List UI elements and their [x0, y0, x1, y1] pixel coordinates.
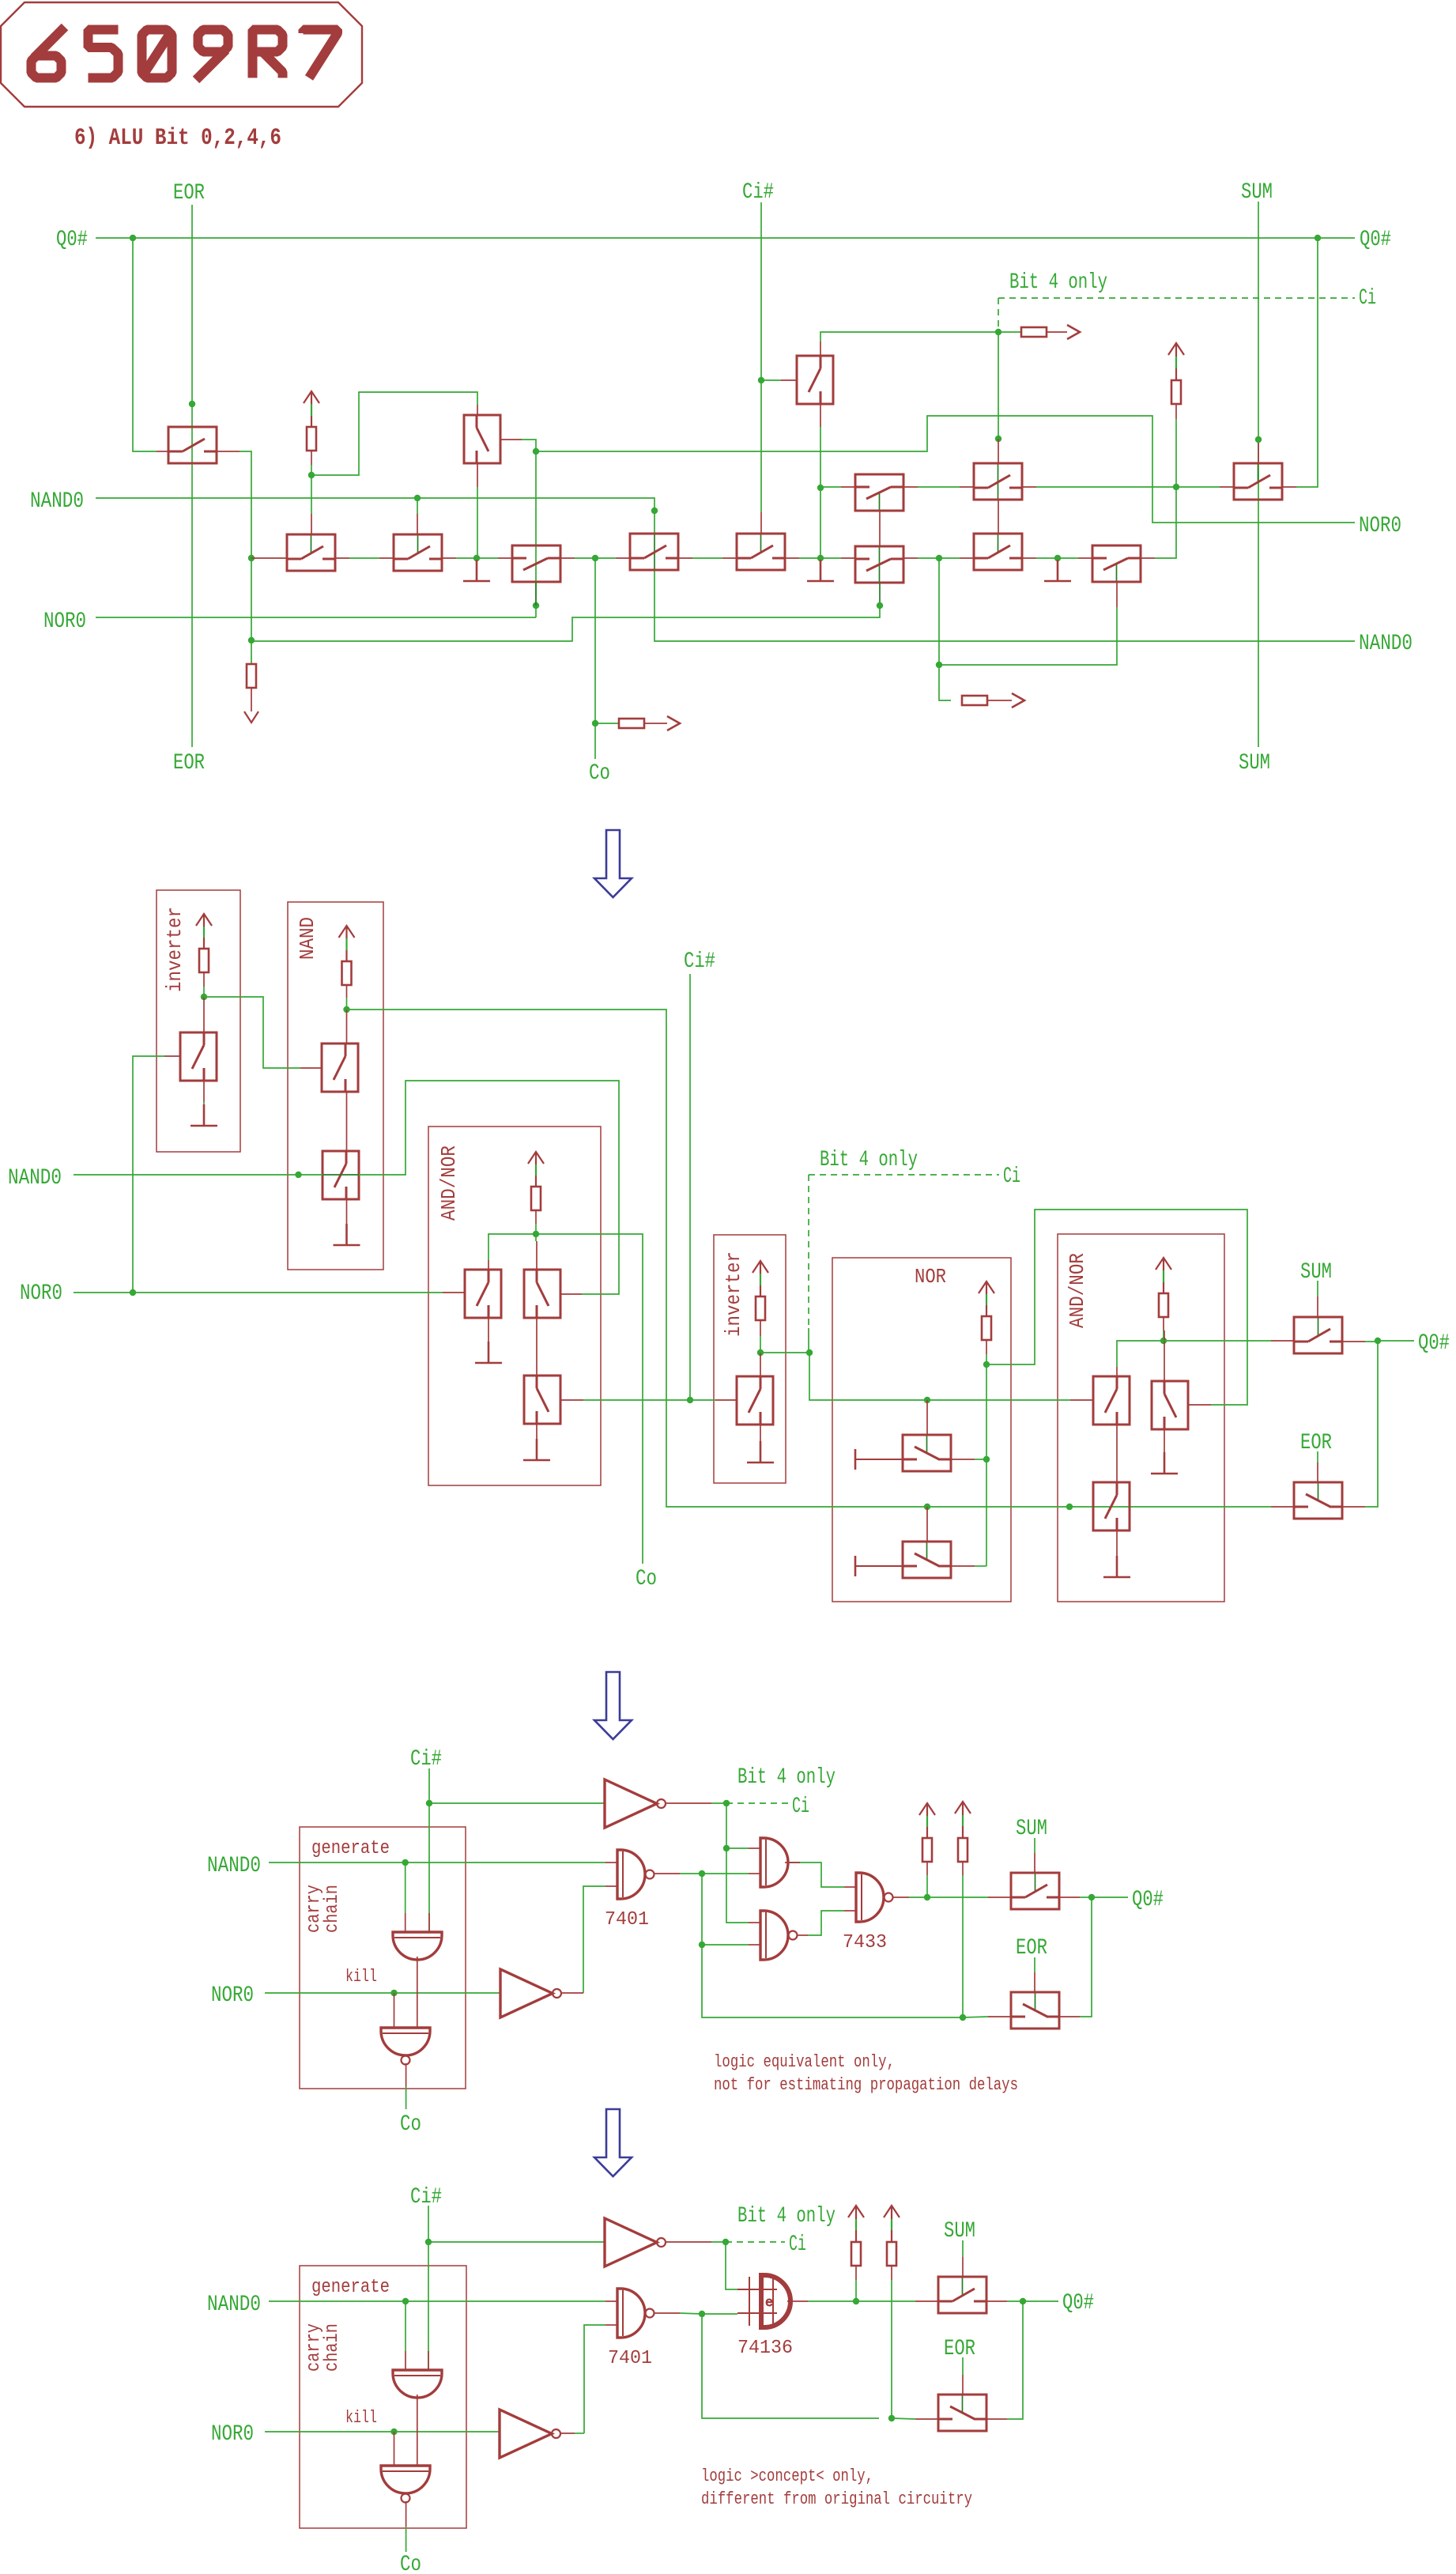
transistor TV1 [464, 415, 500, 463]
wire C4 gate net [251, 606, 880, 641]
svg-text:Ci#: Ci# [742, 180, 774, 205]
junction TBb1 gate [1066, 1504, 1073, 1510]
arrow to Vss [244, 711, 258, 723]
lead Tsum4 right [986, 2300, 1007, 2302]
wire NOR node [986, 1354, 987, 1364]
wire D1 left [820, 486, 841, 488]
transistor T6 [394, 534, 442, 571]
wire chain C1-C2 [575, 557, 616, 559]
gate stub NTr2 [926, 1507, 928, 1542]
gate stub T6a [417, 498, 418, 514]
wire inv1 out to TN1 [204, 997, 300, 1068]
gate line ATr2 in [535, 1234, 537, 1241]
lead INV2t bottom [760, 1425, 761, 1450]
wire 7401a out [654, 1873, 680, 1874]
wire NOR0 s4 [265, 2431, 500, 2432]
gate lead TV1 [501, 439, 522, 440]
wire TI1 gnd [203, 1102, 205, 1116]
gate 7401a [617, 1850, 654, 1899]
gate lead ATrb2 [1189, 1404, 1211, 1406]
junction Q0# s3 [1088, 1894, 1095, 1900]
lead orA in2 [749, 1873, 760, 1874]
lead Teor3 right [1059, 2016, 1080, 2017]
junction NOR0 riser [533, 602, 539, 609]
arrow pull-up inv2 [753, 1261, 768, 1296]
wire 7401 down [702, 1874, 963, 2017]
wire Ci res lead [998, 331, 1021, 333]
lead chain T5-T6 a [335, 557, 349, 559]
wire below resistor R-load1 [251, 688, 252, 711]
svg-text:Q0#: Q0# [56, 228, 88, 252]
lead Teor2 right [1342, 1506, 1365, 1508]
wire RG out [987, 700, 1012, 701]
wire kill out [405, 2063, 407, 2087]
wire TV2 top to Ci node [820, 332, 998, 342]
wire NOR0 rail upper [536, 416, 1355, 523]
transistor ATrb2 [1152, 1381, 1188, 1429]
gate Ci# into AND2 [428, 2351, 429, 2370]
arrow Co out [667, 716, 680, 730]
lead NTr2 right [951, 1565, 975, 1567]
junction Q0# s4 [1020, 2298, 1026, 2304]
ground ATrb2 [1151, 1452, 1178, 1474]
lead Tsum3 right [1059, 1897, 1080, 1898]
gate NOR0 drop [394, 1993, 395, 2028]
lead Tsum1 left [1220, 486, 1234, 488]
wire inv out g [711, 1802, 726, 1804]
lead Tsum2 left [1271, 1340, 1294, 1342]
wire Ci to orA [726, 1847, 749, 1849]
wire RP2 down [962, 1875, 964, 2017]
wire 7401b to xor [702, 2313, 737, 2315]
transistor C5 [974, 534, 1022, 570]
lead TV2 bottom [820, 404, 821, 427]
group box generate 2 [300, 2266, 466, 2528]
arrow pull-up R2 [1168, 343, 1184, 380]
wire chain j-C4 [820, 557, 841, 559]
gate lead ATr2 [560, 1293, 582, 1295]
svg-text:Co: Co [400, 2112, 421, 2137]
lead E1 right [1022, 486, 1036, 488]
wire inv2 node [760, 1336, 761, 1353]
junction Ci bit4 tap [806, 1349, 813, 1356]
junction Ci branch [723, 1845, 730, 1851]
svg-text:generate: generate [311, 2277, 390, 2298]
gate lead ATrb1 [1070, 1399, 1092, 1401]
junction AN1 out [533, 1231, 539, 1237]
wire sum node to Tsum [1176, 486, 1220, 488]
transistor ATr2 [524, 1270, 560, 1318]
junction 7401 out [699, 1870, 705, 1877]
junction Ci out s4 [722, 2239, 729, 2245]
wire TV2 gate [761, 379, 781, 381]
wire AN2 out [1164, 1340, 1271, 1342]
wire NAND0 lower [654, 570, 1355, 641]
wire xor out [787, 2300, 808, 2302]
transistor NTr1 [903, 1435, 951, 1471]
wire Tsum4 out [1007, 2300, 1023, 2302]
svg-text:inverter: inverter [163, 907, 187, 992]
resistor R-load1 [247, 664, 256, 688]
junction inv1 out [201, 994, 207, 1000]
lead Tsum3 left [988, 1897, 1011, 1898]
resistor R2 [1171, 380, 1181, 404]
lead chain C5 right [1022, 557, 1036, 559]
junction C4 gate [877, 602, 883, 609]
wire node A to TV1 top [311, 392, 477, 475]
link ATr2-TB2 [536, 1318, 538, 1376]
svg-text:e: e [765, 2296, 773, 2311]
wire inv out [666, 1802, 711, 1804]
wire NAND node [346, 998, 348, 1010]
svg-text:NAND0: NAND0 [207, 1854, 261, 1878]
wire kill2 out [405, 2501, 407, 2527]
link TN1-TN2 [346, 1092, 348, 1151]
junction NOR out [983, 1361, 990, 1368]
junction sum node [1173, 484, 1179, 490]
wire Co resistor lead [595, 723, 619, 724]
lead TV1 bottom [477, 463, 478, 487]
gate stub T6b [417, 514, 418, 534]
lead T1 left [157, 451, 168, 452]
wire ATr1 gnd [488, 1342, 489, 1353]
wire chain j-C1 [477, 557, 498, 559]
wire Q0# down s4 [1007, 2301, 1023, 2419]
transistor C2 [630, 534, 678, 570]
lead ATrb1 top [1116, 1367, 1118, 1376]
lead Teor4 right [986, 2418, 1007, 2420]
wire NAND0 east [359, 1081, 619, 1294]
transistor Tsum2 [1294, 1317, 1342, 1353]
wire D1-E1 [918, 486, 960, 488]
svg-text:Q0#: Q0# [1360, 228, 1391, 252]
wire 7433 out g [909, 1897, 927, 1898]
wire chain T5-T6 [349, 557, 379, 559]
arrow pull-up inv1 [196, 914, 212, 949]
wire sum rail s3 [927, 1897, 988, 1898]
svg-text:74136: 74136 [737, 2338, 793, 2359]
wire inv3 out stub [561, 1992, 583, 1994]
svg-text:7433: 7433 [843, 1932, 887, 1953]
junction 7401b out [699, 2311, 705, 2317]
gate link D1-C4 [879, 511, 881, 546]
transistor ATr1 [465, 1270, 501, 1318]
lead Teor3 left [988, 2016, 1011, 2017]
lead chain C2 right [678, 557, 692, 559]
lead T1 right [217, 451, 240, 452]
wire ATrb2 gnd [1164, 1455, 1165, 1464]
wire 7401b in2 lead [605, 2324, 617, 2326]
lead ATr2 top [536, 1241, 538, 1270]
junction Ci node [995, 329, 1001, 335]
lead 7401b in1 [605, 2300, 617, 2302]
wire RP2b down [891, 2280, 892, 2418]
arrow Ci out [1067, 325, 1080, 339]
ground inverter 1 [190, 1104, 217, 1126]
junction NOR0 riser top [533, 448, 539, 455]
wire orB out [808, 1911, 844, 1935]
junction NOR0 drop [390, 1990, 397, 1996]
transistor TN1 [322, 1044, 358, 1092]
wire NAND0 drop4 [405, 2301, 406, 2351]
svg-text:Q0#: Q0# [1418, 1331, 1450, 1356]
wire inv5 out g [575, 2432, 584, 2434]
transistor D1 [855, 474, 903, 511]
wire Co s3 [405, 2087, 407, 2109]
lead Tsum4 left [915, 2300, 938, 2302]
ground TBb1 [1103, 1556, 1130, 1577]
wire AN2 node [1163, 1330, 1164, 1341]
wire T1 out [240, 451, 251, 664]
gate 7433 [856, 1873, 893, 1922]
gate line TI1 [203, 997, 205, 1032]
lead E1 left [960, 486, 974, 488]
wire NOR0 rail left [96, 617, 536, 618]
wire Ci node down [998, 332, 999, 439]
resistor R-inv1 [199, 949, 209, 972]
wire TV1 gate to NOR0 node [522, 440, 536, 451]
lead R1 bottom [311, 451, 312, 465]
group box inverter 1 [157, 890, 240, 1152]
transistor TI1 [180, 1032, 217, 1081]
svg-text:NOR0: NOR0 [1359, 514, 1401, 538]
svg-text:logic >concept< only,: logic >concept< only, [701, 2466, 873, 2486]
group box AND/NOR 1 [428, 1127, 601, 1485]
wire NAND0 through TN2 [323, 1174, 359, 1176]
wire AN1 node [535, 1224, 537, 1234]
resistor R-Ci [1021, 327, 1047, 337]
lead TI1 bottom [203, 1081, 205, 1102]
wire orA out [788, 1863, 844, 1887]
junction Ci# tap [687, 1397, 693, 1403]
transistor Teor3 [1011, 1992, 1059, 2029]
logo octagon border [1, 2, 362, 107]
gate 74136 [737, 2275, 790, 2327]
lead orA out [785, 1862, 800, 1863]
lead orB in1 [749, 1922, 760, 1923]
wire Q0# down s3 [1080, 1897, 1092, 2017]
transistor Tsum3 [1011, 1873, 1059, 1909]
svg-text:EOR: EOR [1016, 1936, 1047, 1961]
junction chain kill [473, 555, 480, 561]
junction inv2 out [757, 1349, 764, 1356]
svg-text:SUM: SUM [944, 2219, 975, 2244]
svg-text:chain: chain [322, 2323, 343, 2372]
svg-text:Ci#: Ci# [684, 949, 715, 974]
lead ATrb2 bottom [1164, 1429, 1165, 1455]
wire TI1 gate to NOR0 [133, 1056, 164, 1293]
junction T6 gate [414, 495, 421, 501]
lead chain T5 left [251, 557, 287, 559]
lead chain C6 left [1078, 557, 1092, 559]
wire NAND out east [347, 1010, 1272, 1507]
lead RAN2 bottom [1163, 1317, 1164, 1330]
gate stub Tsum1 [1258, 443, 1259, 463]
junction NTr1 drain [983, 1456, 990, 1462]
wire E1 out [1036, 486, 1176, 488]
lead Rnor bottom [986, 1340, 987, 1354]
wire Ci res out [1047, 331, 1067, 333]
resistor R-G [962, 696, 987, 705]
wire Ci# s4 [428, 2206, 429, 2370]
svg-text:AND/NOR: AND/NOR [1066, 1253, 1089, 1328]
junction TV2 gate tap [758, 377, 764, 383]
arrow pull-up P2 s3 [955, 1802, 971, 1838]
svg-text:AND/NOR: AND/NOR [437, 1145, 461, 1221]
wire chain C4-C5 [918, 557, 960, 559]
wire bit4 tail [808, 1328, 809, 1353]
lead RAN1 bottom [535, 1210, 537, 1224]
wire Ci net [760, 1352, 809, 1353]
ground ATr1 [475, 1342, 502, 1363]
lead Rinv2 bottom [760, 1320, 761, 1336]
gate wire Teor4 [962, 2357, 964, 2375]
svg-text:7401: 7401 [608, 2348, 652, 2369]
wire kill in2 [417, 1957, 418, 2028]
resistor R-inv2 [756, 1296, 765, 1320]
svg-text:Ci: Ci [1003, 1164, 1020, 1189]
wire TV2 bottom [820, 427, 821, 558]
wire NAND0 through C2 [654, 534, 655, 570]
wire Ci dashed drop [998, 298, 999, 332]
group box AND/NOR 2 [1058, 1234, 1224, 1602]
transistor E1 [974, 463, 1022, 500]
wire EOR net vertical [191, 205, 193, 747]
junction AN2 out [1160, 1338, 1167, 1344]
ground chain mid [807, 560, 834, 581]
junction E1 gate [995, 436, 1001, 442]
gate drop4 [405, 2351, 406, 2370]
svg-text:Q0#: Q0# [1132, 1888, 1164, 1912]
junction on EOR gate line [189, 401, 195, 407]
junction 7433 out [924, 1894, 930, 1900]
gate wire Tsum3 [1034, 1838, 1035, 1853]
lead ATrb2 top [1164, 1330, 1165, 1381]
wire 7401b out g [680, 2313, 702, 2314]
wire xor out rail [808, 2300, 915, 2302]
wire Ci dashed rail [998, 297, 1355, 299]
svg-text:Ci: Ci [1359, 286, 1376, 311]
lead orB out [797, 1934, 808, 1936]
resistor RP2 s3 [958, 1838, 968, 1862]
wire SUM vertical [1258, 202, 1259, 747]
wire 7401b out [654, 2312, 680, 2314]
lead orB in2 [749, 1944, 760, 1946]
svg-text:NAND0: NAND0 [207, 2293, 261, 2317]
gate stub C1 [535, 582, 537, 606]
wire AN1 out to Co [536, 1234, 643, 1564]
gate stub NTr1 [926, 1400, 928, 1435]
wire Ci# vertical [760, 202, 762, 512]
wire RP1 to node [926, 1875, 928, 1897]
lead orA in1 [749, 1847, 760, 1849]
ground NAND [334, 1224, 360, 1245]
resistor RP1 s3 [922, 1838, 932, 1862]
junction NTr2 gate [924, 1504, 930, 1510]
lead RP2b bottom [891, 2266, 892, 2280]
svg-text:chain: chain [322, 1885, 343, 1933]
lead TV1 top [477, 405, 478, 415]
transistor INV2t [737, 1376, 773, 1425]
gate lead TI1 [164, 1055, 180, 1057]
wire NAND0 drop [405, 1863, 406, 1913]
wire 7401 to orA [702, 1873, 749, 1874]
lead Teor2 left [1271, 1506, 1294, 1508]
wire Tsum3 out [1080, 1897, 1092, 1898]
wire chain C2-C3 [692, 557, 722, 559]
inverter INV-NOR0 [500, 1969, 561, 2017]
transistor Teor2 [1294, 1482, 1342, 1519]
svg-text:NOR0: NOR0 [211, 2422, 254, 2447]
gate link E1-C5 [998, 499, 999, 534]
junction RP2 eor [960, 2014, 966, 2021]
svg-text:different from original circui: different from original circuitry [701, 2489, 972, 2509]
gate kill NAND 2 [381, 2466, 430, 2503]
wire inv4 out g [711, 2241, 726, 2243]
gate stub Teor2 [1317, 1462, 1318, 1482]
arrow pull-up NOR [979, 1281, 994, 1316]
lead chain C5 left [960, 557, 974, 559]
arrow pull-up AN2 [1156, 1258, 1171, 1293]
svg-text:EOR: EOR [173, 181, 205, 206]
wire bit4 dashed h [809, 1174, 999, 1176]
logo text 6509R7 [32, 27, 338, 80]
junction SUM gate [1255, 436, 1262, 443]
ground chain kill [463, 560, 490, 581]
lead Rnand bottom [346, 985, 348, 998]
wire inv5 to 7401b [584, 2325, 605, 2433]
lead R2 bottom [1175, 404, 1177, 419]
wire kill2 in2 [417, 2395, 418, 2466]
transistor T1 [168, 427, 217, 463]
wire Ci# to inv [429, 1802, 605, 1804]
arrow pull-up P2 s4 [884, 2206, 900, 2242]
wire 7433 out [892, 1897, 909, 1898]
wire TN2 gnd [346, 1225, 348, 1235]
wire TBb1 gnd [1116, 1557, 1118, 1567]
wire Co resistor out [644, 723, 667, 724]
transistor C6 [1092, 545, 1141, 582]
wire chain C5-C6 [1036, 557, 1078, 559]
link ATrb1-TBb1 [1116, 1425, 1118, 1482]
wire Q0# rail [96, 237, 1355, 239]
transistor C1 [512, 545, 560, 582]
lead chain T6 right [442, 557, 456, 559]
junction Ci# tap s3 [426, 1800, 432, 1806]
lead ATr1 top [488, 1260, 489, 1270]
transistor Teor4 [938, 2395, 986, 2431]
arrow pull-up R1 [304, 391, 319, 427]
wire chain T6-j [456, 557, 477, 559]
wire NOR0 s3 [265, 1992, 500, 1994]
gate kill NAND [381, 2028, 430, 2065]
svg-text:inverter: inverter [722, 1251, 745, 1337]
wire R2 to node [1175, 419, 1177, 487]
junction Co tap [592, 720, 598, 727]
svg-text:Bit 4 only: Bit 4 only [1009, 270, 1107, 295]
transistor Tsum1 [1234, 463, 1282, 500]
gate lead TN1 [300, 1067, 322, 1069]
gate stub T5 [311, 514, 312, 534]
arrow pull-up AN1 [528, 1152, 544, 1187]
ground plate NTr2 [855, 1556, 903, 1576]
gate lead ATr1 [443, 1292, 465, 1293]
gate stub C4 [879, 583, 881, 606]
inverter INV-Ci [605, 1780, 666, 1828]
wire NTr2 drain [975, 1565, 986, 1567]
lead chain C4 right [903, 557, 918, 559]
gate stub Tsum2 [1317, 1296, 1318, 1317]
